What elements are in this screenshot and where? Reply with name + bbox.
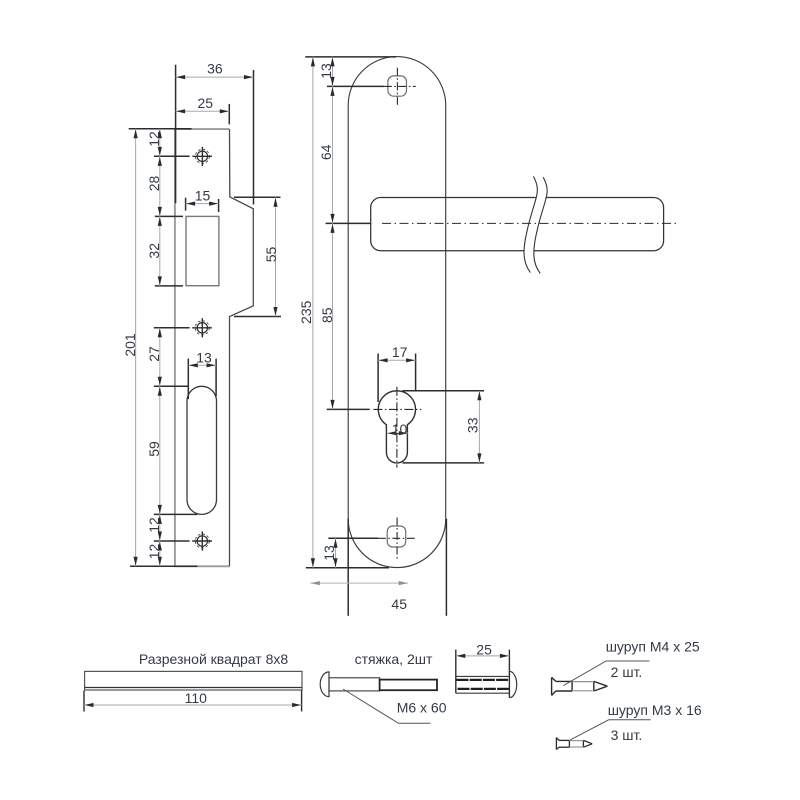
dimension 33 xyxy=(465,391,481,463)
svg-text:12: 12 xyxy=(146,517,162,533)
dimension 13 slot xyxy=(188,349,216,365)
svg-text:59: 59 xyxy=(146,441,162,457)
handle plate bottom hole crosshair xyxy=(378,518,415,559)
strike plate deadbolt slot xyxy=(187,386,217,514)
keyhole xyxy=(378,391,415,463)
dimension 13 handle-plate bottom xyxy=(321,538,337,567)
dimension 25 xyxy=(176,95,230,111)
svg-text:201: 201 xyxy=(122,333,138,357)
svg-text:27: 27 xyxy=(146,346,162,362)
svg-text:12: 12 xyxy=(146,131,162,147)
dimension 13 handle-plate top xyxy=(318,57,334,87)
svg-text:110: 110 xyxy=(185,690,208,706)
svg-text:85: 85 xyxy=(319,307,335,323)
svg-text:13: 13 xyxy=(321,545,337,561)
tie bolt threaded end xyxy=(380,680,437,691)
handle plate top screw hole xyxy=(388,76,407,96)
screw M4 shank xyxy=(572,682,594,691)
handle break wave 1 xyxy=(524,176,537,272)
sleeve nut body xyxy=(456,676,510,693)
dimension 55 xyxy=(263,197,279,316)
strike plate middle screw hole xyxy=(192,318,212,337)
strike plate top screw hole xyxy=(192,147,212,166)
handle centerline xyxy=(382,222,676,224)
sleeve nut thread lines xyxy=(457,680,510,689)
dimension 36 xyxy=(176,61,254,78)
tie bolt leader line xyxy=(343,689,431,723)
handle plate top hole crosshair xyxy=(384,68,416,106)
screw M4 leader line xyxy=(563,661,649,686)
svg-text:10: 10 xyxy=(392,421,408,437)
dimension 201 xyxy=(122,129,138,567)
dimension 12 lower-a xyxy=(146,514,162,541)
svg-text:стяжка, 2шт: стяжка, 2шт xyxy=(355,651,433,667)
screw M4 x 25 xyxy=(552,677,608,695)
dimension 85 xyxy=(319,223,335,409)
svg-text:Разрезной квадрат 8х8: Разрезной квадрат 8х8 xyxy=(139,651,289,667)
svg-text:12: 12 xyxy=(146,544,162,560)
extension lines of handle plate xyxy=(305,57,484,616)
dimension 59 xyxy=(146,386,162,514)
svg-text:шуруп М3 х 16: шуруп М3 х 16 xyxy=(608,702,702,718)
dimension 10 xyxy=(387,421,408,437)
dimension 45 xyxy=(310,583,408,612)
svg-text:15: 15 xyxy=(195,188,211,204)
handle plate bottom screw hole xyxy=(387,526,406,547)
svg-text:33: 33 xyxy=(465,417,481,433)
extension lines of strike plate xyxy=(129,65,281,567)
handle break wave 2 xyxy=(534,177,547,273)
svg-text:17: 17 xyxy=(392,344,408,360)
svg-text:45: 45 xyxy=(391,596,407,612)
sleeve nut flange cap xyxy=(509,671,516,697)
strike plate right edge with bent lip xyxy=(230,129,254,566)
sleeve dimension 25 xyxy=(456,641,510,657)
strike plate latch cutout rectangle xyxy=(186,216,219,285)
strike plate left/top/bottom edges xyxy=(174,129,229,566)
svg-text:36: 36 xyxy=(207,61,223,77)
svg-text:25: 25 xyxy=(476,641,492,657)
dimension 15 xyxy=(186,188,219,204)
dimension 28 xyxy=(146,156,162,216)
dimension 27 xyxy=(146,328,162,387)
svg-text:28: 28 xyxy=(146,176,162,192)
svg-text:235: 235 xyxy=(298,300,314,324)
svg-text:М6 х 60: М6 х 60 xyxy=(397,700,447,716)
strike plate bottom screw hole xyxy=(192,531,212,550)
tie bolt shaft xyxy=(329,678,380,691)
svg-text:64: 64 xyxy=(318,144,334,160)
door handle xyxy=(371,198,664,251)
svg-text:3 шт.: 3 шт. xyxy=(611,727,643,743)
dimension 17 xyxy=(378,344,416,360)
svg-text:2 шт.: 2 шт. xyxy=(611,664,643,680)
handle plate outline xyxy=(348,57,446,568)
svg-text:13: 13 xyxy=(318,63,334,79)
svg-text:13: 13 xyxy=(196,349,212,365)
screw M3 x 16 xyxy=(556,738,592,750)
tie bolt head xyxy=(320,672,329,697)
svg-text:шуруп М4 х 25: шуруп М4 х 25 xyxy=(606,639,700,655)
svg-text:55: 55 xyxy=(263,247,279,263)
split square bar outline xyxy=(85,671,302,690)
svg-text:32: 32 xyxy=(146,243,162,259)
dimension 110 extension lines xyxy=(84,691,302,712)
sleeve dimension 25 extension lines xyxy=(456,650,510,698)
screw M3 leader line xyxy=(570,720,651,740)
screw M3 shank xyxy=(569,741,583,747)
dimension 64 xyxy=(318,86,334,223)
svg-text:25: 25 xyxy=(198,95,214,111)
dimension 12 top xyxy=(146,129,162,157)
keyhole crosshair xyxy=(373,387,421,468)
dimension 235 xyxy=(298,57,314,568)
dimension 110 xyxy=(84,690,302,706)
dimension 32 xyxy=(146,216,162,286)
handle break white gap xyxy=(524,176,547,273)
dimension 12 lower-b xyxy=(146,541,162,566)
